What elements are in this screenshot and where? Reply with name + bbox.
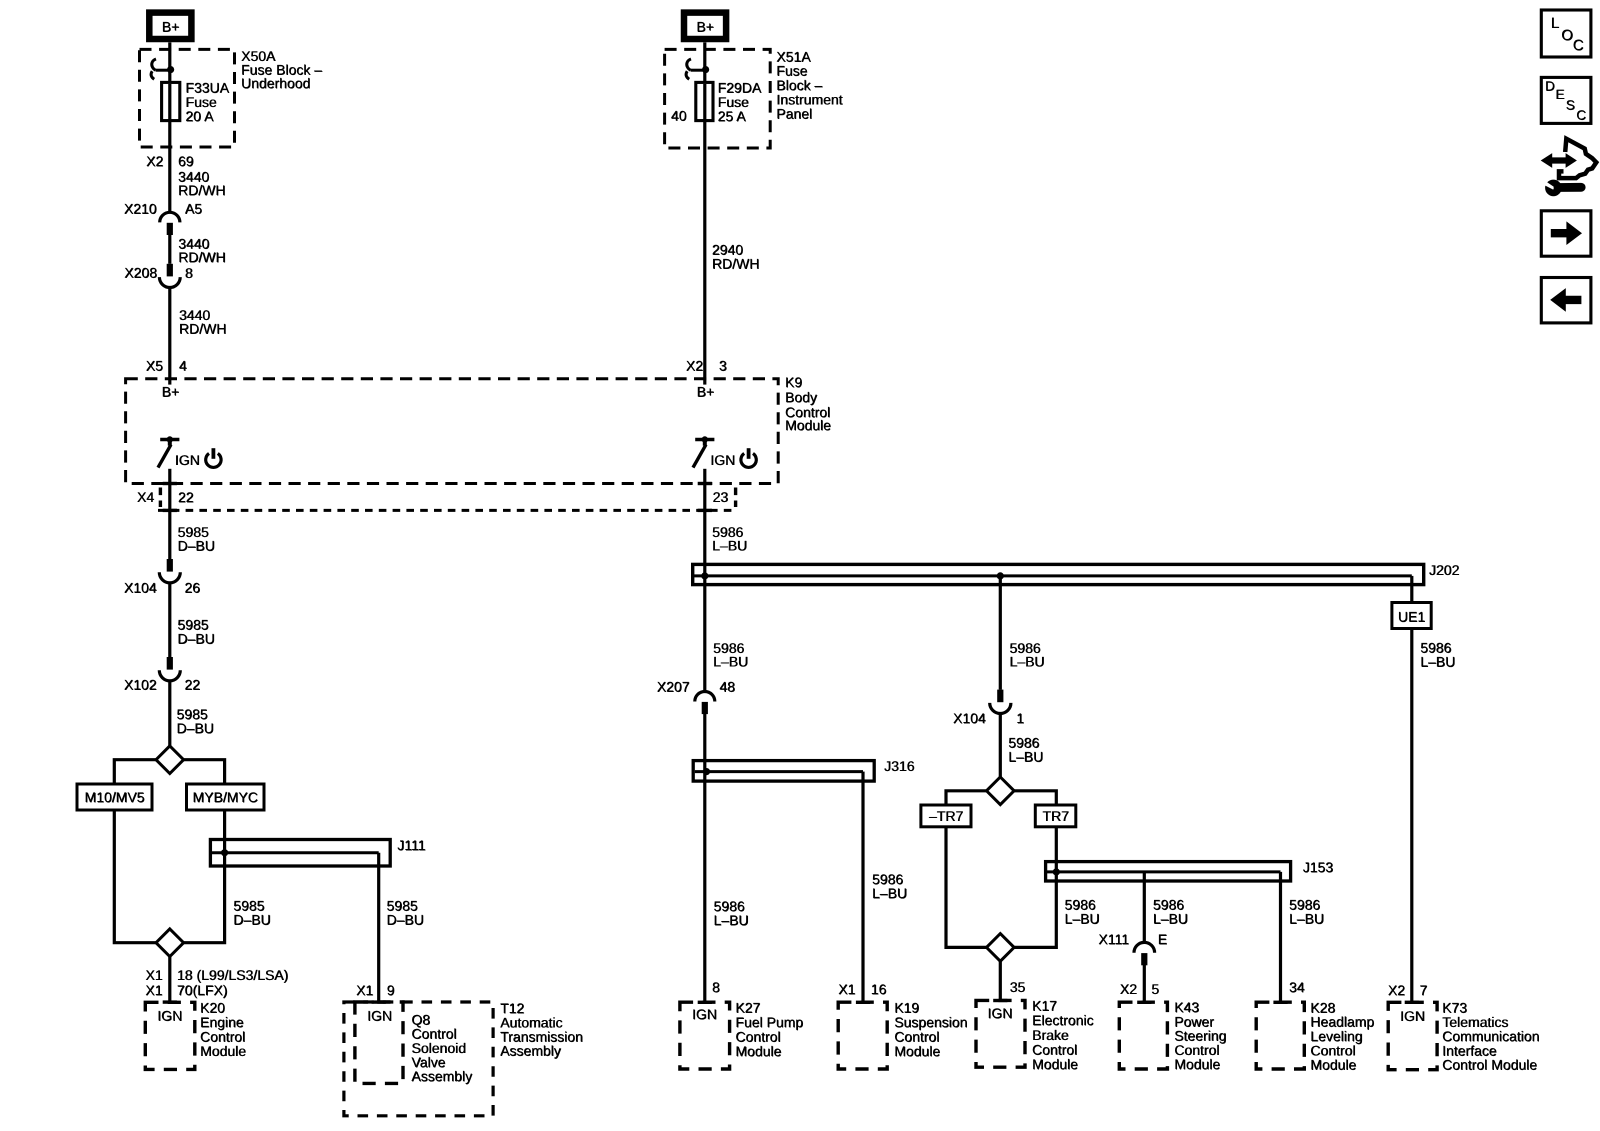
engine control module K20 dashed box xyxy=(145,1002,195,1069)
telematics communication interface control module K73 dashed box xyxy=(1388,1002,1437,1069)
fuse holder clip (X51A) xyxy=(691,69,706,72)
tick left wire at X4 strip line xyxy=(163,509,177,512)
wire J316 to K27 pin 8 xyxy=(703,771,706,1003)
svg-text:–TR7: –TR7 xyxy=(929,808,963,824)
wire X104 to splice diamond (right) xyxy=(999,714,1002,777)
wire M10/MV5 to lower diamond xyxy=(114,810,156,943)
svg-text:IGN: IGN xyxy=(175,452,200,468)
svg-text:J153: J153 xyxy=(1303,859,1334,875)
wire UE1 to K73 X2-7 xyxy=(1410,629,1413,1004)
wire X208 to BCM X5 pin 4 xyxy=(168,288,171,379)
wire J202 to connector X207 xyxy=(703,576,706,692)
svg-text:23: 23 xyxy=(713,489,729,505)
svg-text:D: D xyxy=(1546,79,1556,94)
svg-text:9: 9 xyxy=(387,982,395,998)
svg-text:E: E xyxy=(1556,87,1565,102)
connector X4 strip right separator xyxy=(734,488,737,508)
inline connector X104 pin 26 xyxy=(167,559,173,572)
svg-text:Module: Module xyxy=(1033,1056,1079,1072)
svg-text:20 A: 20 A xyxy=(186,108,215,124)
junction dot above fuse F33UA xyxy=(167,66,174,73)
fuse F29DA 25 A element xyxy=(696,82,713,120)
fuse holder clip (X50A) xyxy=(156,69,171,72)
svg-text:L–BU: L–BU xyxy=(1010,654,1045,670)
junction dot on J153 xyxy=(1053,868,1060,875)
wire J202 to connector X104 (right) xyxy=(999,576,1002,690)
splice J202 bus box xyxy=(693,564,1424,584)
svg-text:E: E xyxy=(1158,931,1167,947)
wire lower diamond to K17 pin 35 xyxy=(999,961,1002,1001)
svg-text:1: 1 xyxy=(1017,711,1025,727)
svg-text:D–BU: D–BU xyxy=(177,720,214,736)
svg-text:34: 34 xyxy=(1290,980,1306,996)
tick wire at K17 box top xyxy=(993,999,1007,1002)
wire fuse to connector X2 pin 69 xyxy=(168,119,171,212)
tick wire at K27 box top xyxy=(698,1001,712,1004)
svg-text:B+: B+ xyxy=(162,19,180,35)
wire J316 branch to K19 X1-16 xyxy=(861,781,864,1003)
fuse block X50A dashed box xyxy=(140,49,235,147)
svg-text:L–BU: L–BU xyxy=(873,886,908,902)
svg-text:X1: X1 xyxy=(146,982,163,998)
tick right wire at K9 bottom xyxy=(698,482,712,485)
wire X210 to X208 segment xyxy=(168,235,171,264)
wire fuse F29DA to BCM X2 pin 3 xyxy=(703,119,706,379)
svg-text:RD/WH: RD/WH xyxy=(179,182,226,198)
svg-text:L–BU: L–BU xyxy=(1009,749,1044,765)
power node B+ (battery feed, left) xyxy=(149,13,191,39)
wire X111 to K43 X2-5 xyxy=(1143,965,1146,1003)
svg-text:22: 22 xyxy=(185,677,201,693)
svg-text:22: 22 xyxy=(179,490,195,506)
option box TR7 xyxy=(1035,805,1076,827)
svg-text:C: C xyxy=(1573,37,1584,54)
svg-text:Module: Module xyxy=(1175,1056,1221,1072)
svg-text:D–BU: D–BU xyxy=(178,538,215,554)
transmission option box MYB/MYC xyxy=(187,784,265,810)
svg-text:Module: Module xyxy=(1311,1057,1357,1073)
svg-text:Module: Module xyxy=(201,1043,247,1059)
svg-text:D–BU: D–BU xyxy=(234,912,271,928)
control solenoid valve Q8 dashed box xyxy=(355,1002,403,1083)
svg-text:18 (L99/LS3/LSA): 18 (L99/LS3/LSA) xyxy=(177,967,288,983)
fuse block X51A dashed box xyxy=(665,49,771,148)
svg-text:X2: X2 xyxy=(686,358,703,374)
nav icon LOC box xyxy=(1541,10,1591,57)
svg-text:MYB/MYC: MYB/MYC xyxy=(193,790,258,806)
svg-text:7: 7 xyxy=(1420,982,1428,998)
wire J202 to UE1 xyxy=(1410,585,1413,603)
tick right wire at X4 strip line xyxy=(698,509,712,512)
svg-text:X2: X2 xyxy=(1120,981,1137,997)
svg-text:IGN: IGN xyxy=(693,1007,718,1023)
wire X207 to splice J316 xyxy=(703,714,706,772)
svg-text:X4: X4 xyxy=(137,489,154,505)
svg-text:L–BU: L–BU xyxy=(1421,654,1456,670)
svg-text:IGN: IGN xyxy=(368,1008,393,1024)
svg-text:X2: X2 xyxy=(1388,982,1405,998)
wire BCM right internal stub (B+) xyxy=(703,379,706,385)
wire X102 to splice diamond xyxy=(168,681,171,746)
splice diamond (right upper) xyxy=(987,777,1015,805)
svg-text:L–BU: L–BU xyxy=(714,913,749,929)
svg-text:IGN: IGN xyxy=(1401,1008,1426,1024)
inline connector X104 pin 1 (right) xyxy=(997,690,1003,703)
junction dot J202 left xyxy=(701,572,708,579)
svg-text:X1: X1 xyxy=(146,967,163,983)
svg-text:48: 48 xyxy=(720,679,736,695)
nav icon DESC box xyxy=(1541,77,1591,123)
junction dot on J111 xyxy=(221,849,228,856)
wire TR7 through J153 to lower diamond xyxy=(1014,827,1056,948)
svg-text:8: 8 xyxy=(713,980,721,996)
svg-text:Underhood: Underhood xyxy=(242,76,311,92)
connector X4 strip bottom dashed line xyxy=(158,509,736,512)
splice J153 bus box xyxy=(1046,862,1291,881)
wire J153 to K28 pin 34 xyxy=(1279,872,1282,1003)
svg-text:8: 8 xyxy=(185,265,193,281)
svg-text:Module: Module xyxy=(736,1044,782,1060)
svg-text:L: L xyxy=(1551,15,1559,32)
tick wire at K19 box top xyxy=(856,1001,870,1004)
junction dot J202 mid xyxy=(997,572,1004,579)
svg-text:70(LFX): 70(LFX) xyxy=(177,982,228,998)
svg-text:X208: X208 xyxy=(125,265,158,281)
automatic transmission assembly T12 dashed box xyxy=(344,1002,493,1116)
splice diamond (left upper) xyxy=(156,746,184,774)
wire J111 to lower diamond xyxy=(184,853,225,943)
wire -TR7 to lower diamond xyxy=(946,827,987,948)
svg-text:Control Module: Control Module xyxy=(1443,1057,1538,1073)
svg-text:K9: K9 xyxy=(786,374,803,390)
wire junction to fuse F33UA xyxy=(168,70,171,83)
svg-text:69: 69 xyxy=(179,153,195,169)
nav icon back-arrow box xyxy=(1541,278,1591,323)
tick wire at K20 box top xyxy=(163,1000,177,1003)
inline connector X208 pin 8 xyxy=(167,264,173,277)
splice diamond (left lower) xyxy=(156,929,184,957)
svg-text:Assembly: Assembly xyxy=(501,1043,562,1059)
svg-text:Panel: Panel xyxy=(777,106,813,122)
svg-text:16: 16 xyxy=(871,981,887,997)
tick wire at K73 box top xyxy=(1405,1001,1419,1004)
svg-text:TR7: TR7 xyxy=(1043,808,1070,824)
wire diamond to MYB/MYC xyxy=(184,760,225,784)
wire J153 to connector X111 xyxy=(1143,872,1146,943)
svg-text:C: C xyxy=(1577,108,1587,123)
svg-text:X1: X1 xyxy=(839,981,856,997)
ignition switch inside K9 (left) xyxy=(160,438,179,441)
svg-text:4: 4 xyxy=(179,358,187,374)
power node B+ (battery feed, right) xyxy=(684,13,726,39)
svg-text:40: 40 xyxy=(671,108,687,124)
electronic brake control module K17 dashed box xyxy=(976,1000,1025,1067)
nav icon next-arrow box xyxy=(1541,211,1591,256)
svg-text:J316: J316 xyxy=(885,758,916,774)
svg-text:L–BU: L–BU xyxy=(714,654,749,670)
inline connector X210 pin A5 xyxy=(160,212,180,222)
svg-text:Body: Body xyxy=(786,389,818,405)
power symbol (right switch) xyxy=(741,453,756,467)
svg-text:J111: J111 xyxy=(398,837,426,853)
wire B+ to fuse block X51A xyxy=(703,42,706,70)
svg-text:35: 35 xyxy=(1010,979,1026,995)
svg-text:3: 3 xyxy=(719,358,727,374)
svg-text:Module: Module xyxy=(786,417,832,433)
inline connector X207 pin 48 xyxy=(695,692,715,702)
svg-text:X2: X2 xyxy=(147,153,164,169)
wire switch to X4 pin 22 (left) xyxy=(168,469,171,511)
body control module K9 dashed box xyxy=(126,379,779,484)
splice diamond (right lower) xyxy=(987,934,1015,962)
nav icon vehicle-diagnostic (arrows + wrench) xyxy=(1541,153,1577,168)
svg-text:RD/WH: RD/WH xyxy=(179,249,226,265)
tick wire at Q8 box top xyxy=(372,1000,386,1003)
tick wire at K28 box top xyxy=(1273,1001,1287,1004)
svg-text:M10/MV5: M10/MV5 xyxy=(85,790,145,806)
junction dot above fuse F29DA xyxy=(702,66,709,73)
wire X4-23 to splice J202 xyxy=(703,510,706,576)
svg-text:L–BU: L–BU xyxy=(1153,911,1188,927)
tick left wire at K9 bottom xyxy=(163,482,177,485)
option box UE1 xyxy=(1392,603,1431,629)
svg-text:S: S xyxy=(1566,98,1575,113)
suspension control module K19 dashed box xyxy=(838,1002,887,1069)
svg-text:X210: X210 xyxy=(124,201,157,217)
power steering control module K43 dashed box xyxy=(1119,1002,1167,1069)
svg-text:Assembly: Assembly xyxy=(412,1069,473,1085)
svg-text:RD/WH: RD/WH xyxy=(179,321,226,337)
svg-text:5: 5 xyxy=(1152,981,1160,997)
svg-text:A5: A5 xyxy=(185,201,202,217)
svg-text:IGN: IGN xyxy=(711,452,736,468)
svg-text:D–BU: D–BU xyxy=(178,631,215,647)
wire diamond to TR7 xyxy=(1014,791,1056,805)
connector X4 strip left separator xyxy=(159,488,162,508)
svg-text:X1: X1 xyxy=(357,982,374,998)
svg-text:X102: X102 xyxy=(124,677,157,693)
transmission option box M10/MV5 xyxy=(77,784,152,810)
wire junction to fuse F29DA xyxy=(703,70,706,83)
splice J111 bus box xyxy=(210,840,390,867)
inline connector X102 pin 22 xyxy=(167,657,173,670)
fuel pump control module K27 dashed box xyxy=(680,1002,730,1069)
svg-text:B+: B+ xyxy=(162,384,180,400)
svg-text:26: 26 xyxy=(185,580,201,596)
svg-text:Module: Module xyxy=(895,1044,941,1060)
wire lower diamond to K20 xyxy=(168,957,171,1004)
svg-text:L–BU: L–BU xyxy=(713,538,748,554)
svg-text:X5: X5 xyxy=(146,358,163,374)
svg-text:X104: X104 xyxy=(124,580,157,596)
fuse F33UA 20 A element xyxy=(162,82,180,120)
ignition switch inside K9 (right) xyxy=(695,438,714,441)
svg-text:IGN: IGN xyxy=(988,1006,1013,1022)
svg-text:X207: X207 xyxy=(657,679,690,695)
svg-text:IGN: IGN xyxy=(158,1008,183,1024)
wire BCM left internal stub (B+) xyxy=(168,379,171,385)
svg-text:25 A: 25 A xyxy=(718,108,747,124)
svg-text:UE1: UE1 xyxy=(1398,609,1425,625)
svg-text:X104: X104 xyxy=(954,711,987,727)
svg-text:B+: B+ xyxy=(697,384,715,400)
wire diamond to M10/MV5 xyxy=(114,760,156,784)
option box -TR7 xyxy=(921,805,971,827)
svg-text:L–BU: L–BU xyxy=(1290,911,1325,927)
splice J316 bus box xyxy=(693,761,874,782)
wire J111 branch to Q8 xyxy=(377,853,380,1002)
junction dot on J316 xyxy=(703,768,710,775)
inline connector X111 pin E xyxy=(1134,942,1155,952)
wire B+ to fuse block X50A xyxy=(168,42,171,70)
headlamp leveling control module K28 dashed box xyxy=(1256,1002,1304,1069)
svg-text:J202: J202 xyxy=(1429,562,1460,578)
svg-text:RD/WH: RD/WH xyxy=(712,256,759,272)
svg-text:D–BU: D–BU xyxy=(387,912,424,928)
wire X104 to X102 xyxy=(168,583,171,657)
wire diamond to -TR7 xyxy=(946,791,987,805)
power symbol (left switch) xyxy=(206,453,221,467)
svg-text:L–BU: L–BU xyxy=(1065,911,1100,927)
svg-text:X111: X111 xyxy=(1099,931,1130,947)
wire MYB/MYC to splice J111 xyxy=(223,810,226,853)
tick wire at K43 box top xyxy=(1137,1001,1151,1004)
wire switch to X4 pin 23 (right) xyxy=(703,469,706,511)
wire X4-22 to connector X104 xyxy=(168,510,171,559)
svg-text:B+: B+ xyxy=(697,19,715,35)
